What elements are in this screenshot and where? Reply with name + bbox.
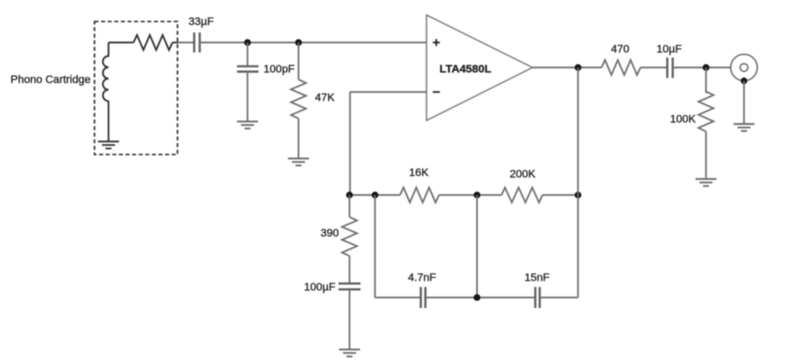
wire: inverting input to feedback column: [350, 91, 427, 93]
wire: node A down to R 390: [349, 195, 351, 217]
wire: cartridge internal top: [109, 42, 134, 44]
wire: R 470 to C 10uF: [641, 67, 668, 69]
wire: C 33uF to op-amp non-inverting input: [200, 42, 427, 44]
wire: node to R 100K: [705, 68, 707, 94]
resistor R 16K: [400, 188, 439, 203]
node: feedback node B (left cap branch): [372, 192, 379, 199]
wire: C 100uF to ground: [349, 289, 351, 349]
resistor R 470: [602, 60, 641, 75]
ground (below 100K): [696, 179, 717, 186]
node: feedback node A (390 tap): [346, 192, 353, 199]
svg-text:LTA4580L: LTA4580L: [440, 63, 492, 75]
node: feedback node R (output column): [575, 192, 582, 199]
wire: feedback top rail (right segment): [543, 194, 579, 196]
wire: node B down to bottom rail: [374, 195, 376, 298]
capacitor C 100pF: [237, 66, 259, 71]
resistor (cartridge internal): [134, 35, 173, 50]
node: jack sleeve junction: [741, 78, 748, 85]
wire: C 100pF to ground: [247, 72, 249, 122]
svg-text:Phono Cartridge: Phono Cartridge: [11, 74, 91, 86]
wire: bottom rail (left segment): [375, 297, 421, 299]
wire: feedback top rail (left segment): [350, 194, 401, 196]
resistor R 47K: [291, 80, 306, 119]
phono cartridge enclosure (dashed box): [95, 22, 178, 155]
wire: cartridge resistor to box edge: [173, 42, 179, 44]
ground (below 100pF): [237, 122, 258, 129]
node: junction at 100K tap: [703, 64, 710, 71]
capacitor C 10uF: [667, 58, 672, 79]
capacitor C 15nF: [535, 287, 539, 308]
svg-text:100K: 100K: [670, 114, 696, 126]
svg-text:4.7nF: 4.7nF: [408, 272, 436, 284]
capacitor C 4.7nF: [421, 287, 426, 308]
wire: inductor to cartridge ground: [108, 101, 110, 142]
wire: node to C 100pF: [247, 43, 249, 67]
wire: bottom rail (right segment): [540, 297, 578, 299]
node: bottom rail middle junction: [474, 294, 481, 301]
wire: box edge to C 33uF: [178, 42, 194, 44]
svg-text:10µF: 10µF: [657, 43, 683, 55]
wire: feedback top rail (middle segment): [439, 194, 502, 196]
output jack J1 (center pin): [740, 64, 748, 72]
wire: R 47K to ground: [298, 119, 300, 159]
wire: op-amp output to R 470: [533, 67, 602, 69]
svg-text:470: 470: [611, 43, 629, 55]
node: junction at 47K tap: [295, 39, 302, 46]
ground (below 100uF): [339, 350, 360, 357]
wire: feedback column down to feedback rail: [349, 92, 351, 195]
svg-text:100pF: 100pF: [264, 64, 295, 76]
resistor R 200K: [502, 188, 543, 203]
svg-text:16K: 16K: [409, 167, 429, 179]
svg-text:47K: 47K: [315, 92, 335, 104]
svg-text:100µF: 100µF: [304, 282, 336, 294]
wire: R 100K to ground: [705, 132, 707, 180]
ground (cartridge): [98, 142, 119, 149]
node: feedback node M (top middle): [474, 192, 481, 199]
wire: bottom rail (middle segment): [425, 297, 535, 299]
svg-text:15nF: 15nF: [525, 272, 550, 284]
wire: node to R 47K: [298, 43, 300, 80]
resistor R 390: [342, 217, 357, 256]
ground (below 47K): [288, 159, 309, 166]
wire: node M down to bottom rail: [476, 195, 478, 298]
op-amp U1 LTA4580L: [427, 15, 533, 121]
inductor (cartridge internal): [103, 43, 109, 102]
node: junction at 100pF tap: [244, 39, 251, 46]
capacitor C 100uF: [339, 284, 361, 290]
node: op-amp output / feedback junction: [575, 64, 582, 71]
resistor R 100K: [699, 92, 714, 132]
pin label: non-inverting input +: [433, 39, 440, 46]
capacitor C 33uF: [194, 33, 200, 53]
wire: C 10uF to output jack: [673, 67, 731, 69]
wire: jack sleeve to ground: [743, 81, 745, 124]
output jack J1 (outer ring): [731, 54, 758, 81]
ground (below jack): [734, 124, 755, 131]
svg-text:33µF: 33µF: [189, 16, 215, 28]
svg-text:200K: 200K: [510, 169, 536, 181]
svg-text:390: 390: [321, 228, 339, 240]
pin label: inverting input -: [433, 91, 440, 93]
wire: R 390 to C 100uF: [349, 256, 351, 284]
wire: output column (output node down to bottom rail): [577, 68, 579, 298]
